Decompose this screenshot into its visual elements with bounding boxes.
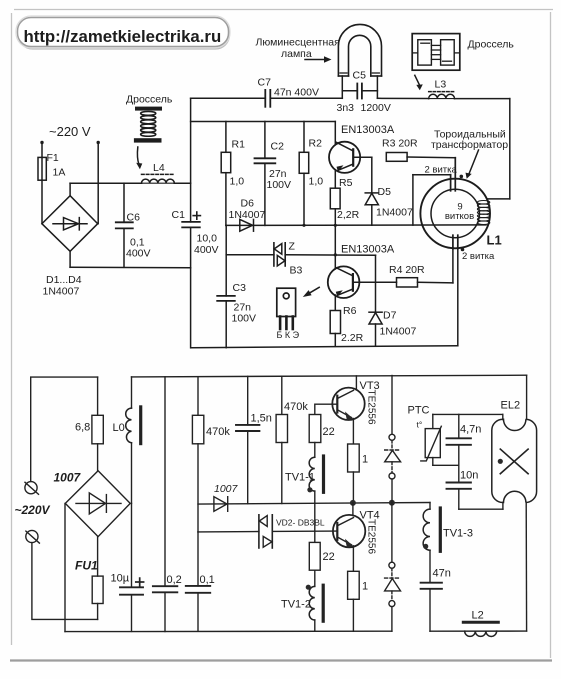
- svg-text:R3 20R: R3 20R: [382, 138, 418, 150]
- svg-text:TV1-2: TV1-2: [281, 599, 311, 611]
- svg-text:470k: 470k: [206, 426, 230, 438]
- svg-text:2 витка: 2 витка: [462, 251, 495, 262]
- transistor Q1 EN13003A: [329, 142, 360, 173]
- wire: long mid rail y225: [226, 224, 486, 227]
- 9-turn winding: [477, 201, 489, 225]
- svg-text:C3: C3: [233, 282, 247, 294]
- svg-text:Люминесцентная: Люминесцентная: [256, 37, 340, 49]
- wire: VT3 collector to rail: [355, 376, 357, 390]
- capacitor C6: [123, 183, 125, 222]
- resistor 1 (1): [348, 444, 360, 472]
- svg-text:L0: L0: [113, 422, 125, 434]
- wire: L4 to C1 column: [174, 182, 190, 184]
- svg-text:1,5n: 1,5n: [251, 413, 272, 425]
- svg-text:лампа: лампа: [281, 48, 312, 60]
- svg-text:TE2556: TE2556: [366, 390, 377, 425]
- svg-text:PTC: PTC: [408, 405, 430, 417]
- wire: VT4 collector to mid rail: [352, 503, 354, 516]
- diac VD2 DB3BL: [258, 515, 260, 548]
- svg-text:L4: L4: [153, 162, 165, 174]
- svg-text:L1: L1: [487, 233, 502, 248]
- svg-text:10µ: 10µ: [111, 573, 130, 585]
- svg-text:47n 400V: 47n 400V: [274, 87, 319, 99]
- diac VD2 wire: [198, 531, 259, 533]
- svg-text:1: 1: [362, 581, 368, 593]
- resistor R6: [330, 311, 340, 334]
- resistor R1: [225, 122, 227, 153]
- svg-text:R6: R6: [343, 305, 357, 317]
- svg-text:10,0: 10,0: [197, 233, 218, 245]
- toroid core L1: [420, 179, 490, 249]
- diac Z symbol: [273, 243, 275, 266]
- svg-text:L2: L2: [472, 610, 484, 622]
- capacitor C1 (electrolytic): [182, 221, 200, 223]
- diode 1007 (2): [214, 497, 227, 512]
- wire: bottom rail (top schematic): [191, 346, 457, 348]
- arrow choke to L4: [137, 147, 139, 165]
- junction dots top schematic: [334, 224, 337, 227]
- wire: top rail segment left: [31, 377, 98, 481]
- resistor 22 (2): [314, 531, 316, 542]
- transformer winding TV1-2: [309, 586, 315, 620]
- svg-text:10n: 10n: [460, 470, 478, 482]
- wire: top rail left of C7: [191, 97, 266, 99]
- svg-text:R5: R5: [339, 177, 353, 189]
- svg-text:1200V: 1200V: [361, 102, 391, 114]
- wire: top rail down to lamp top-right: [526, 375, 528, 419]
- svg-text:100V: 100V: [232, 313, 257, 325]
- svg-text:TE2556: TE2556: [366, 519, 377, 554]
- diode (dashed, optional) upper: [391, 376, 393, 435]
- svg-text:0,2: 0,2: [167, 574, 182, 586]
- diac Z wire: [226, 254, 274, 256]
- svg-text:трансформатор: трансформатор: [431, 139, 508, 151]
- wire: bridge left vertex down to bottom rail: [64, 503, 66, 631]
- svg-text:3n3: 3n3: [337, 102, 355, 114]
- svg-text:2,2R: 2,2R: [337, 209, 360, 221]
- mains terminal 2: [26, 530, 38, 542]
- wire: VT3 base tap: [315, 404, 337, 414]
- wire: 9-turn top to right bus: [487, 199, 489, 201]
- svg-text:22: 22: [323, 426, 335, 438]
- svg-text:2.2R: 2.2R: [341, 332, 364, 344]
- wire: Q2 emitter to R6: [334, 295, 336, 311]
- wire: Q1 collector: [334, 122, 336, 144]
- wire: right bus down to toroid: [509, 99, 511, 199]
- inductor L3: [429, 91, 455, 93]
- choke bobbin icon: [135, 107, 162, 111]
- capacitor 47n: [429, 550, 431, 583]
- wire: terminal 2 down and right to FU1: [32, 543, 98, 620]
- svg-text:EN13003A: EN13003A: [341, 244, 395, 256]
- svg-text:R4 20R: R4 20R: [389, 264, 425, 276]
- capacitor 10u: [131, 503, 133, 587]
- winding bottom (2 turns): [452, 235, 454, 249]
- svg-text:t°: t°: [417, 420, 423, 430]
- wire: lamp bottom-left feed: [459, 508, 503, 510]
- capacitor C5: [342, 90, 357, 92]
- svg-text:D1...D4: D1...D4: [46, 274, 82, 286]
- node: mains terminal left: [40, 141, 43, 144]
- svg-text:R1: R1: [232, 139, 246, 151]
- wire: bridge bottom vertex down: [69, 251, 71, 267]
- inductor L0: [131, 377, 133, 408]
- wire: lower-left rail: [70, 266, 191, 268]
- wire: mid rail corner down to TV1-3: [429, 503, 431, 510]
- svg-text:Дроссель: Дроссель: [468, 39, 515, 51]
- site url header bubble: [19, 20, 229, 49]
- svg-text:0,1: 0,1: [200, 574, 215, 586]
- svg-text:1A: 1A: [53, 167, 66, 179]
- wire: Q1 emitter to R5: [334, 170, 336, 188]
- arrow choke box to L3: [415, 75, 420, 85]
- svg-text:1N4007: 1N4007: [229, 209, 266, 221]
- junction dot VT4 collector: [350, 500, 356, 506]
- capacitor C3: [225, 225, 227, 296]
- wire: top rail L3 to right bus: [455, 98, 510, 100]
- svg-text:http://zametkielectrika.ru: http://zametkielectrika.ru: [24, 27, 222, 46]
- lamp terminal wires: [341, 76, 343, 98]
- svg-text:C1: C1: [172, 209, 186, 221]
- svg-text:TV1-3: TV1-3: [443, 528, 473, 540]
- arrow to package: [307, 287, 320, 295]
- diode D5: [371, 157, 373, 193]
- wire: right terminal down to bridge right vertex: [97, 143, 99, 224]
- svg-text:100V: 100V: [267, 179, 292, 191]
- transformer winding TV1-1: [309, 457, 315, 491]
- wire: TV1-2 to bottom rail: [314, 620, 316, 631]
- wire: left terminal down to fuse: [41, 143, 43, 158]
- capacitor 0,1: [197, 532, 199, 586]
- capacitor 10n: [447, 482, 471, 484]
- svg-text:1: 1: [362, 454, 368, 466]
- svg-text:~220 V: ~220 V: [49, 124, 91, 139]
- svg-text:400V: 400V: [194, 244, 219, 256]
- svg-text:B3: B3: [290, 265, 303, 277]
- resistor 470k (2): [281, 376, 283, 414]
- svg-text:~220V: ~220V: [15, 503, 51, 517]
- svg-text:TV1-1: TV1-1: [285, 472, 315, 484]
- wire: VT4 emitter: [352, 546, 354, 572]
- svg-text:4,7n: 4,7n: [460, 424, 481, 436]
- transistor package drawing: [277, 288, 296, 316]
- wire: lamp bottom-right down to bottom rail: [525, 503, 527, 632]
- wire: Q2 collector from diac junction: [334, 225, 336, 269]
- svg-text:C6: C6: [127, 212, 141, 224]
- capacitor C7: [264, 90, 266, 107]
- wire: top rail C7 to lamp: [270, 97, 342, 99]
- junction dot diode column: [389, 500, 395, 506]
- wire: TV1-1 down through mid rail to diac wire: [314, 491, 316, 531]
- wire: lamp top-left feed: [433, 413, 503, 415]
- svg-text:C2: C2: [271, 141, 285, 153]
- main left column riser: [190, 98, 192, 222]
- diode bridge 1007: [65, 471, 130, 537]
- mains terminal 1: [25, 482, 37, 494]
- transistor Q2 EN13003A: [328, 266, 360, 298]
- diode D7: [375, 255, 377, 312]
- svg-text:F1: F1: [47, 152, 59, 164]
- fluorescent lamp U-tube: [338, 24, 381, 76]
- wire: L0 to bridge right vertex: [131, 443, 133, 504]
- resistor R5: [330, 188, 340, 209]
- wire: top rail segment right: [132, 375, 527, 377]
- svg-text:2 витка: 2 витка: [425, 165, 458, 176]
- svg-text:1,0: 1,0: [309, 176, 324, 188]
- wire: rail bridge to L4: [70, 182, 141, 184]
- wire: bottom winding right down to bottom rail: [457, 249, 459, 346]
- svg-text:FU1: FU1: [75, 559, 98, 573]
- svg-text:D6: D6: [241, 198, 255, 210]
- fuse F1: [41, 157, 43, 180]
- wire: bridge top vertex riser: [69, 183, 71, 196]
- svg-text:EL2: EL2: [501, 400, 521, 412]
- resistor 6,8: [97, 377, 99, 415]
- svg-text:R2: R2: [309, 138, 323, 150]
- svg-text:L3: L3: [435, 79, 447, 91]
- svg-text:Z: Z: [289, 241, 296, 253]
- node: mains terminal right: [97, 141, 100, 144]
- svg-text:EN13003A: EN13003A: [341, 124, 395, 136]
- wire: bottom winding left to R4: [452, 249, 454, 283]
- capacitor 1,5n: [247, 376, 249, 425]
- svg-text:1N4007: 1N4007: [43, 286, 80, 298]
- capacitor 0,2: [164, 377, 166, 586]
- wire: bottom rail right part: [430, 630, 527, 632]
- inductor L4: [142, 173, 175, 175]
- resistor 470k (1): [197, 377, 199, 416]
- svg-text:400V: 400V: [126, 248, 151, 260]
- svg-text:Б К Э: Б К Э: [277, 330, 300, 340]
- svg-text:1007: 1007: [54, 471, 82, 485]
- svg-text:VD2- DB3BL: VD2- DB3BL: [276, 518, 325, 528]
- svg-text:1007: 1007: [214, 483, 239, 495]
- svg-text:6,8: 6,8: [75, 422, 90, 434]
- resistor 22 (1): [309, 415, 321, 443]
- resistor 1 (2): [348, 571, 360, 599]
- wire: fuse to bridge left vertex: [41, 180, 43, 224]
- svg-text:D5: D5: [378, 186, 392, 198]
- fuse FU1: [97, 604, 99, 620]
- svg-text:Дроссель: Дроссель: [126, 94, 173, 106]
- arrow to toroid: [469, 150, 479, 175]
- svg-text:47n: 47n: [433, 568, 451, 580]
- diode (dashed, optional) lower: [391, 503, 393, 562]
- svg-text:22: 22: [323, 551, 335, 563]
- svg-text:D7: D7: [383, 310, 397, 322]
- svg-text:C5: C5: [353, 70, 367, 82]
- svg-text:1N4007: 1N4007: [380, 326, 417, 338]
- capacitor C2: [264, 122, 266, 159]
- thermistor PTC: [432, 414, 434, 428]
- diode D6: [240, 219, 253, 231]
- transformer winding TV1-3: [423, 509, 430, 550]
- inductor L2: [463, 621, 498, 624]
- svg-text:470k: 470k: [284, 401, 308, 413]
- wire: top rail lamp to L3: [377, 97, 428, 99]
- wire: VT3 emitter: [352, 419, 354, 445]
- wire: bottom rail left part: [65, 630, 392, 632]
- capacitor 4,7n: [458, 414, 460, 438]
- choke box icon: [412, 34, 460, 71]
- resistor R2: [303, 122, 305, 153]
- svg-text:C7: C7: [258, 77, 272, 89]
- diode bridge D1...D4: [42, 196, 98, 252]
- wire: mid rail: [198, 503, 430, 505]
- svg-text:витков: витков: [445, 211, 474, 222]
- arrow to lamp: [305, 59, 325, 61]
- svg-text:1N4007: 1N4007: [376, 207, 413, 219]
- svg-text:1,0: 1,0: [230, 176, 245, 188]
- wire: top winding left to riser: [413, 174, 451, 176]
- winding top (2 turns): [450, 175, 452, 191]
- wire: rail y121: [191, 121, 336, 123]
